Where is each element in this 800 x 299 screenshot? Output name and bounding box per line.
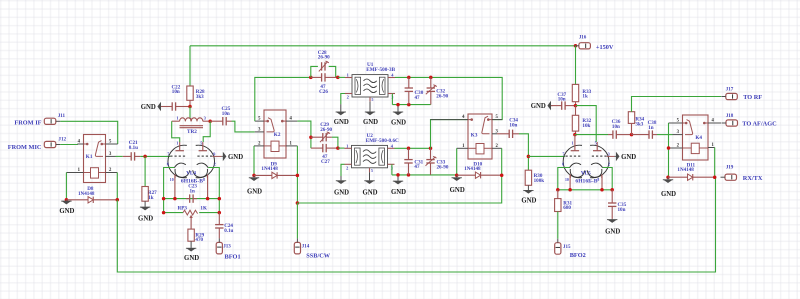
resistor R28 3k3	[187, 86, 193, 107]
svg-text:680: 680	[563, 205, 571, 211]
svg-text:10n: 10n	[509, 122, 517, 128]
ground R27	[138, 201, 153, 222]
connector J19	[721, 164, 737, 180]
svg-text:J12: J12	[58, 137, 66, 143]
junction K4 pin2	[667, 146, 671, 150]
svg-text:3k3: 3k3	[196, 94, 204, 100]
svg-text:1: 1	[176, 115, 178, 120]
junction row1 right	[218, 197, 222, 201]
wire VL5 cathode pin A	[569, 175, 571, 190]
svg-text:26-90: 26-90	[318, 55, 330, 61]
svg-text:8: 8	[597, 178, 599, 182]
wire VL5 cathode pin B	[601, 175, 603, 190]
wire to U1 pin1	[338, 76, 345, 78]
wire grid node to R27	[144, 156, 146, 186]
svg-text:J18: J18	[726, 113, 734, 119]
wire C38 to K4 pin3	[657, 134, 673, 136]
wire K4 pin5 ground leg	[668, 123, 670, 177]
svg-text:6: 6	[167, 162, 169, 167]
junction VL5 rail right	[610, 188, 614, 192]
svg-text:0.1u: 0.1u	[129, 145, 138, 151]
relay K2	[254, 110, 297, 158]
wire node to VL5 anode B	[576, 106, 597, 142]
svg-text:GND: GND	[362, 190, 377, 197]
wire cathode row 1	[164, 198, 220, 200]
wire K1 pin 2 to D8	[116, 173, 118, 200]
svg-text:1N4148: 1N4148	[464, 166, 481, 172]
svg-text:1k: 1k	[582, 94, 588, 100]
wire K3 pin2 down	[501, 148, 503, 175]
wire cathode row 2b	[199, 212, 219, 214]
svg-text:1k: 1k	[148, 195, 154, 201]
svg-text:7: 7	[167, 151, 169, 156]
junction D9 left	[252, 174, 256, 178]
svg-text:470: 470	[195, 237, 203, 243]
junction C30 bottom	[407, 103, 411, 107]
svg-text:4: 4	[391, 143, 394, 148]
wire TR2 pin3 to VL4 anode b	[203, 121, 210, 142]
svg-text:C27: C27	[321, 159, 330, 165]
svg-text:6H16Б-B: 6H16Б-B	[575, 179, 597, 185]
capacitor C31 47	[404, 148, 412, 175]
junction row2 right	[218, 211, 222, 215]
capacitor C36 10n	[608, 130, 632, 138]
svg-text:GND: GND	[141, 104, 156, 111]
junction +150V J16	[574, 44, 578, 48]
wire K2 pin2 to ground	[253, 146, 255, 176]
wire U1 pin2 to ground	[341, 94, 345, 105]
svg-text:10k: 10k	[582, 123, 590, 129]
diode D10 1N4148	[457, 162, 502, 179]
diode D11 1N4148	[668, 162, 715, 180]
svg-text:10: 10	[565, 178, 569, 182]
filter U1 EMF-500-3B	[345, 62, 396, 102]
svg-text:1N4148: 1N4148	[78, 191, 95, 197]
wire U1 output ground rail	[392, 104, 430, 106]
capacitor C32 26-90 trimmer	[426, 77, 437, 104]
svg-text:2: 2	[346, 165, 348, 170]
wire cathode row 2	[164, 212, 183, 214]
svg-text:+150V: +150V	[596, 44, 614, 51]
wire VL4 grid B stub	[212, 155, 221, 157]
svg-text:1n: 1n	[648, 125, 654, 131]
resistor R31 680	[555, 190, 561, 212]
tube VL5 triode B	[587, 142, 609, 178]
resistor R32 10k	[572, 106, 578, 135]
svg-text:1: 1	[176, 141, 178, 146]
svg-text:1: 1	[346, 143, 348, 148]
svg-text:GND: GND	[391, 189, 406, 196]
svg-text:J13: J13	[223, 243, 231, 249]
ground C22	[141, 102, 163, 112]
svg-text:FROM MIC: FROM MIC	[8, 144, 42, 151]
connector J12	[44, 137, 66, 148]
wire SSB/CW rail	[297, 175, 501, 203]
capacitor C35 10n	[608, 190, 616, 219]
ground U2 rail	[391, 175, 406, 196]
connector J17	[721, 87, 737, 100]
wire C34 to VL5 grid	[519, 134, 528, 170]
connector J15	[555, 239, 571, 255]
node U2 out a	[407, 147, 411, 151]
svg-text:GND: GND	[661, 191, 676, 198]
resistor R27 1k	[142, 187, 148, 202]
svg-text:RP3: RP3	[178, 206, 188, 212]
svg-text:GND: GND	[59, 208, 74, 215]
wire K2 pin5 to filter input	[255, 77, 311, 121]
connector J18	[722, 113, 738, 126]
svg-text:10n: 10n	[222, 111, 230, 117]
connector J11	[44, 113, 65, 124]
svg-text:GND: GND	[247, 188, 262, 195]
capacitor C25 10n	[210, 117, 231, 125]
svg-text:BFO1: BFO1	[225, 253, 241, 260]
node VL5 grid	[527, 155, 531, 159]
junction D10 left	[455, 173, 459, 177]
ground U2 pin2	[334, 176, 349, 197]
svg-text:VL5: VL5	[581, 170, 591, 176]
svg-text:26-90: 26-90	[436, 94, 448, 100]
node U2 out b	[429, 147, 433, 151]
wire J12 to K1 pin 4	[60, 143, 77, 146]
svg-text:J15: J15	[563, 244, 571, 250]
wire K3 pin1 to ground	[456, 148, 458, 175]
node U1 out a	[407, 76, 411, 80]
svg-text:47: 47	[415, 95, 421, 101]
resistor R30 100k	[525, 170, 531, 185]
capacitor C34 10n	[497, 130, 519, 138]
junction K1/D8 left	[65, 198, 69, 202]
wire C29 right leg	[332, 137, 338, 148]
svg-text:2: 2	[608, 162, 610, 167]
svg-text:3: 3	[204, 115, 207, 120]
junction U2 rail gnd	[396, 173, 400, 177]
wire C25 to K2 pin 3	[232, 121, 255, 132]
wire tap to TR2	[189, 107, 191, 118]
wire C21 to VL4 grid	[140, 155, 170, 157]
node C26 right	[336, 76, 340, 80]
svg-text:GND: GND	[138, 216, 153, 223]
junction D9 right	[296, 174, 300, 178]
svg-text:5: 5	[372, 98, 374, 102]
svg-text:8: 8	[203, 178, 205, 182]
diode D9 1N4148	[254, 161, 297, 178]
ground R30	[521, 185, 536, 204]
capacitor C22 10n	[161, 102, 190, 110]
wire U2 pin2 to ground	[341, 164, 345, 176]
junction R28/C22/TR2 tap	[188, 105, 192, 109]
ground U1 pin5	[363, 102, 378, 126]
wire rail to R28	[189, 46, 191, 86]
wire U2 output ground rail	[392, 174, 457, 176]
svg-text:K2: K2	[274, 132, 281, 138]
wire U2 pin3 down	[391, 164, 393, 175]
resistor R29 470	[188, 229, 194, 241]
wire U2 pin4 output line	[395, 147, 431, 149]
junction row1 cathode B	[206, 197, 210, 201]
svg-text:1N4148: 1N4148	[261, 166, 278, 172]
ground U1 rail	[391, 105, 406, 127]
wire VL5 side exit right	[603, 168, 613, 190]
wire VL4 cathode pin B	[207, 175, 209, 199]
wire TR2 pin1 to VL4 anode a	[172, 121, 180, 142]
capacitor C24 0.1u	[215, 213, 223, 239]
svg-text:1N4148: 1N4148	[677, 167, 694, 173]
resistor R34 3k3	[628, 112, 634, 135]
node C27 right	[336, 146, 340, 150]
svg-text:J19: J19	[726, 164, 734, 170]
tube VL4 triode A	[168, 142, 190, 178]
wire K2 pin1 down	[296, 146, 298, 203]
svg-text:1n: 1n	[190, 189, 196, 195]
node VL5 anode A	[573, 133, 577, 137]
svg-text:5: 5	[595, 141, 597, 146]
ground C37	[531, 101, 553, 111]
ground C35	[605, 219, 620, 236]
ground R29	[184, 241, 199, 262]
svg-text:10n: 10n	[618, 207, 626, 213]
relay K1	[66, 135, 117, 183]
svg-text:GND: GND	[450, 187, 465, 194]
capacitor C37 10n	[551, 101, 576, 109]
junction row1 left	[162, 197, 166, 201]
svg-text:SSB/CW: SSB/CW	[306, 253, 331, 260]
svg-text:10: 10	[170, 178, 174, 182]
node C26 left	[309, 76, 313, 80]
wire RX/TX bottom rail	[117, 177, 715, 272]
svg-text:GND: GND	[605, 228, 620, 235]
svg-text:5: 5	[371, 169, 373, 173]
ground K3 coil	[450, 176, 465, 194]
capacitor C27 47	[311, 144, 338, 152]
svg-text:J17: J17	[726, 87, 734, 93]
wire VL5 grid B stub	[607, 155, 615, 157]
capacitor C33 26-90 trimmer	[426, 148, 437, 175]
wire grid node to tube	[528, 155, 565, 157]
junction VL5 rail left	[556, 188, 560, 192]
svg-text:TR2: TR2	[187, 129, 197, 135]
wire K2 pin4 to C29 node	[297, 121, 311, 148]
junction VL5 rail cathode A	[568, 188, 572, 192]
wire K4 pin1 down	[714, 148, 716, 178]
svg-text:GND: GND	[228, 154, 243, 161]
wire R31 to J15	[557, 212, 559, 239]
wire VL5 cathode rail	[558, 189, 612, 191]
capacitor C30 47	[405, 77, 413, 104]
junction U1 rail gnd	[396, 103, 400, 107]
wire U1 pin3 down	[391, 94, 393, 105]
junction TR2 pin3	[208, 119, 212, 123]
svg-text:10n: 10n	[612, 124, 620, 130]
svg-text:K4: K4	[695, 135, 702, 141]
svg-text:K1: K1	[86, 154, 93, 160]
junction C31 bottom	[407, 173, 411, 177]
junction row1 cathode A	[173, 197, 177, 201]
ground U1 pin2	[334, 104, 349, 126]
svg-text:26-90: 26-90	[320, 127, 332, 133]
capacitor C38 1n	[632, 130, 658, 138]
svg-text:1: 1	[572, 141, 574, 146]
svg-text:VL4: VL4	[186, 170, 196, 176]
svg-text:GND: GND	[521, 198, 536, 205]
svg-text:10n: 10n	[172, 89, 180, 95]
svg-text:5: 5	[200, 141, 202, 146]
svg-text:J14: J14	[302, 244, 310, 250]
svg-text:J11: J11	[58, 113, 66, 119]
capacitor C21 0.1u	[123, 152, 140, 160]
wire rail to R33	[575, 46, 577, 85]
svg-text:GND: GND	[184, 255, 199, 262]
wire U1 pin4 output line	[395, 77, 502, 119]
svg-text:GND: GND	[621, 154, 636, 161]
svg-text:GND: GND	[334, 190, 349, 197]
wire VL4 side exit right	[208, 168, 219, 213]
svg-text:GND: GND	[334, 119, 349, 126]
node VL4 grid 1	[143, 155, 147, 159]
relay K4	[669, 115, 722, 160]
svg-text:EMF-500-0.6C: EMF-500-0.6C	[366, 138, 399, 144]
wire anode row to C36	[575, 134, 608, 136]
svg-text:9: 9	[213, 151, 215, 156]
wire anode A pin	[574, 135, 576, 142]
wire rail to J14	[296, 203, 298, 238]
potentiometer RP3 1K	[183, 210, 198, 229]
svg-text:3: 3	[608, 151, 610, 156]
svg-text:1: 1	[347, 73, 349, 78]
diode D8 1N4148	[66, 186, 117, 203]
capacitor C28 26-90 trimmer	[319, 61, 329, 71]
svg-text:1K: 1K	[200, 206, 207, 212]
svg-text:0.1u: 0.1u	[224, 228, 233, 234]
wire VL5 side exit left	[558, 168, 570, 190]
wire C28 to node right	[329, 66, 336, 77]
wire K1 pin3 stub to C21	[116, 155, 123, 157]
capacitor C26 47	[311, 73, 338, 81]
svg-text:2: 2	[214, 162, 216, 167]
svg-text:2: 2	[347, 95, 349, 100]
node R33/R32/C37	[574, 104, 578, 108]
ground VL5 grid2	[614, 152, 636, 162]
svg-text:EMF-500-3B: EMF-500-3B	[366, 67, 395, 73]
node C29 left	[309, 135, 313, 139]
ground K2 coil	[247, 176, 262, 196]
connector J14	[294, 238, 309, 254]
junction row2 left	[162, 211, 166, 215]
junction SSB rail	[296, 201, 300, 205]
ground VL4 grid2	[221, 152, 243, 162]
wire U2 out to K3 pin4	[431, 120, 469, 149]
relay K3	[431, 114, 503, 159]
svg-text:BFO2: BFO2	[570, 252, 586, 259]
filter U2 EMF-500-0.6C	[345, 133, 400, 173]
resistor R33 1k	[572, 84, 578, 105]
svg-text:100k: 100k	[534, 178, 545, 184]
wire +150V rail	[190, 45, 576, 47]
tube VL4 triode B	[193, 142, 215, 178]
svg-text:4: 4	[391, 73, 394, 78]
wire VL4 side exit left	[164, 168, 175, 213]
svg-text:6: 6	[562, 162, 564, 167]
svg-text:FROM IF: FROM IF	[14, 119, 41, 126]
svg-text:7: 7	[562, 151, 564, 156]
svg-text:RX/TX: RX/TX	[743, 175, 763, 182]
wire K1 pin 1 to ground	[65, 173, 67, 200]
connector J16	[574, 34, 590, 49]
ground K4 coil	[661, 178, 676, 198]
wire R34 to J17	[632, 97, 722, 112]
capacitor C29 26-90 trimmer	[311, 132, 332, 142]
ground K1 coil	[59, 200, 74, 215]
node U1 out b	[429, 76, 433, 80]
svg-text:K3: K3	[471, 133, 478, 139]
wire C28 branch	[311, 66, 318, 77]
wire J11 to K1 pin 5	[60, 121, 117, 144]
junction D11 right	[713, 175, 717, 179]
junction D8 right / RX-TX rail	[116, 198, 120, 202]
svg-text:26-90: 26-90	[437, 164, 449, 170]
svg-text:3k3: 3k3	[635, 121, 643, 127]
wire VL4 cathode pin A	[174, 175, 176, 199]
svg-text:C26: C26	[319, 89, 328, 95]
svg-text:TO RF: TO RF	[743, 94, 762, 101]
svg-text:GND: GND	[531, 103, 546, 110]
junction D10 right	[500, 173, 504, 177]
ground U2 pin5	[362, 172, 377, 196]
connector J13	[216, 238, 231, 254]
svg-text:47: 47	[414, 164, 420, 170]
svg-text:J16: J16	[579, 34, 587, 40]
junction VL5 rail cathode B	[600, 188, 604, 192]
svg-text:GND: GND	[363, 119, 378, 126]
svg-text:GND: GND	[391, 120, 406, 127]
transformer TR2	[172, 115, 211, 135]
wire to U2 pin1	[338, 147, 345, 149]
capacitor C23 1n	[186, 194, 197, 202]
tube VL5 triode A	[563, 142, 585, 178]
junction D11 left	[666, 175, 670, 179]
node R34 bottom	[630, 133, 634, 137]
svg-text:TO AF/AGC: TO AF/AGC	[742, 120, 777, 127]
